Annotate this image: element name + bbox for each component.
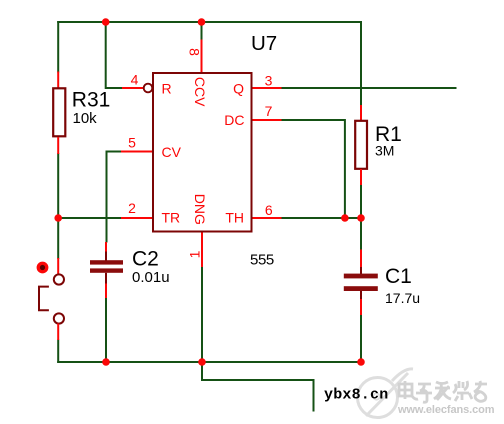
wire: GND drop from pin 1 to bottom rail (201, 267, 203, 364)
svg-text:Q: Q (233, 81, 244, 97)
svg-text:C1: C1 (385, 265, 412, 288)
wire: top rail (57, 21, 361, 23)
watermark text 电子发烧友 (approximated strokes) (399, 381, 487, 402)
watermark stamp logo (358, 369, 414, 418)
svg-text:555: 555 (250, 252, 274, 269)
svg-text:R: R (162, 81, 172, 97)
svg-text:ybx8.cn: ybx8.cn (324, 387, 388, 404)
pin 7 lead (253, 119, 282, 121)
wire: right rail TH node to C1 (360, 218, 362, 250)
svg-text:7: 7 (265, 103, 273, 119)
junction dot: TR on left rail (54, 214, 62, 222)
wire: C1 bottom to ground rail (360, 315, 362, 364)
wire: right rail between R1 and TH node (360, 185, 362, 220)
junction dot: VCC drop on top rail (198, 18, 206, 26)
capacitor C2 (90, 242, 170, 298)
svg-text:DNG: DNG (192, 194, 208, 225)
svg-text:3: 3 (265, 73, 273, 89)
svg-text:4: 4 (131, 72, 139, 88)
junction dot: DC on TH wire (341, 214, 349, 222)
wire: DC branch down to TH node (281, 120, 345, 218)
pin 3 lead (253, 87, 282, 89)
wire: VCC drop from top rail to pin 8 (201, 21, 203, 40)
svg-text:CV: CV (162, 144, 182, 160)
svg-text:CCV: CCV (192, 77, 208, 107)
svg-text:C2: C2 (132, 248, 159, 271)
wire: TH to right rail (281, 217, 361, 219)
svg-text:3M: 3M (375, 143, 394, 159)
svg-text:17.7u: 17.7u (385, 290, 420, 306)
svg-text:5: 5 (128, 135, 136, 151)
wire: left rail bottom section (57, 340, 59, 364)
svg-text:www.elecfans.com: www.elecfans.com (397, 404, 495, 416)
wire: Q output to the right (281, 87, 457, 89)
junction dot: C2 on bottom rail (102, 358, 110, 366)
pin 4 lead (122, 87, 144, 89)
pin 2 lead (121, 217, 152, 219)
svg-text:U7: U7 (251, 32, 277, 55)
svg-text:10k: 10k (73, 110, 98, 127)
pin 6 lead (253, 217, 282, 219)
svg-text:TH: TH (225, 210, 244, 226)
wire: reset branch from top rail to pin 4 (106, 21, 123, 88)
555 timer U7 (121, 32, 282, 269)
pin 8 lead (201, 40, 203, 73)
svg-text:8: 8 (187, 48, 203, 56)
pushbutton switch (37, 258, 64, 340)
svg-text:TR: TR (162, 210, 181, 226)
svg-text:0.01u: 0.01u (132, 269, 170, 286)
wire: output step below bottom rail (202, 362, 314, 412)
capacitor C1 (344, 250, 420, 316)
junction dot: TH on right rail (357, 214, 365, 222)
svg-text:DC: DC (224, 112, 244, 128)
resistor R31 (53, 72, 110, 155)
wire: CV branch down to C2 (107, 152, 122, 243)
wire: C2 bottom to ground rail (105, 298, 107, 364)
svg-text:1: 1 (187, 250, 203, 258)
junction dot: GND on bottom rail (198, 358, 206, 366)
svg-text:R31: R31 (72, 89, 111, 112)
pin 5 lead (121, 151, 152, 153)
chip body (153, 73, 252, 232)
pin 4 bubble (144, 84, 153, 93)
pin 1 lead (201, 233, 203, 268)
wire: TR to left rail (57, 217, 121, 219)
resistor R1 (355, 105, 402, 185)
wire: right rail top section (360, 21, 362, 106)
svg-text:2: 2 (128, 200, 136, 216)
wire: left rail middle section (57, 153, 59, 259)
junction dot: C1 on bottom rail (357, 358, 365, 366)
svg-text:6: 6 (265, 202, 273, 218)
wire: left rail top section (57, 21, 59, 73)
junction dot: reset branch on top rail (102, 18, 110, 26)
wire: bottom rail (57, 361, 362, 363)
